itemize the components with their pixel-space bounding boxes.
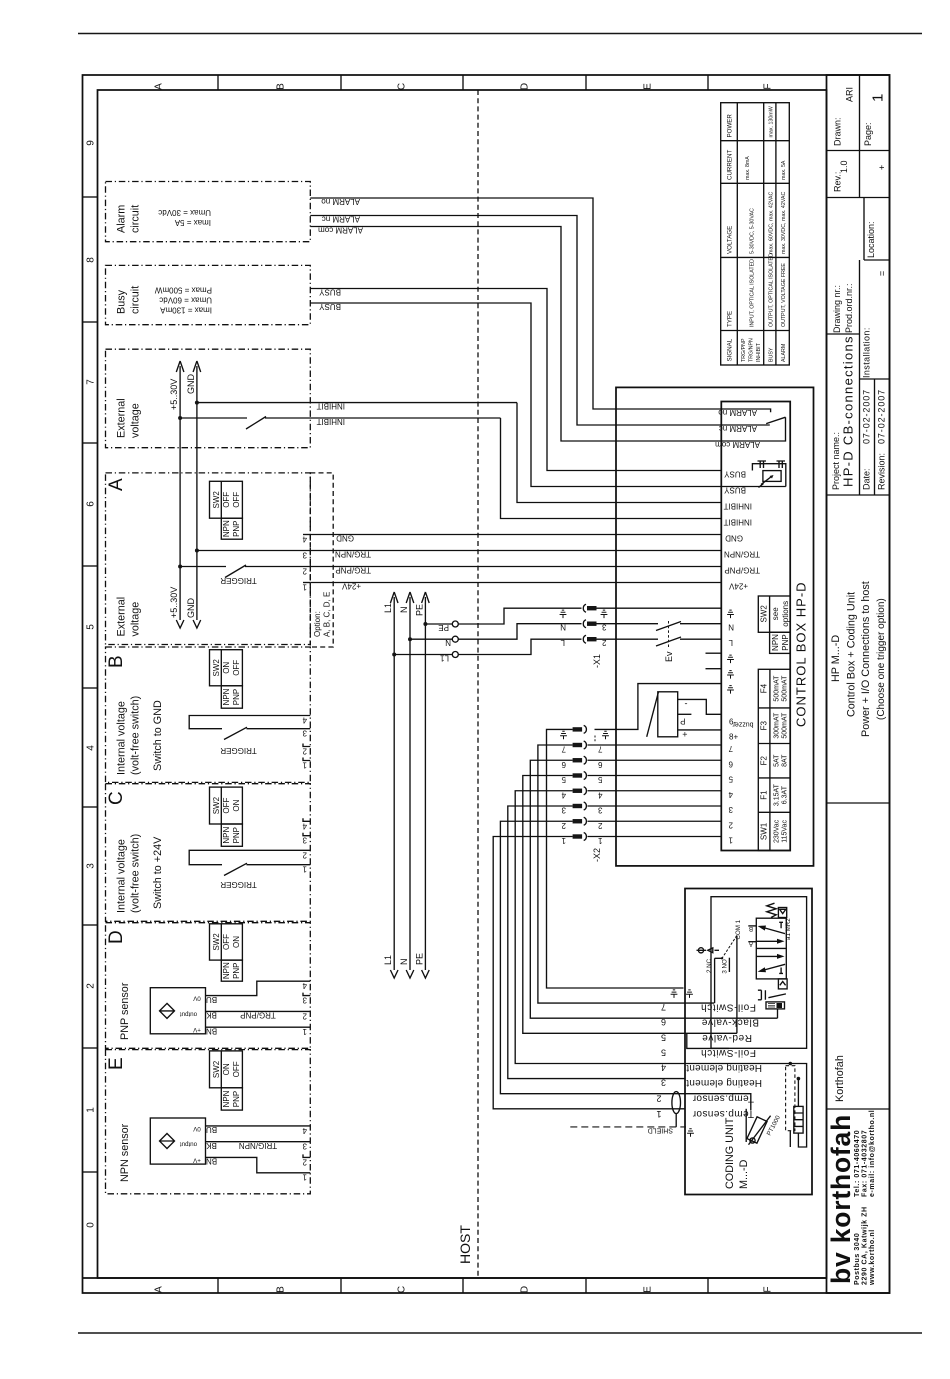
junction dot heating 4 — [789, 1062, 793, 1066]
svg-text:0: 0 — [86, 1222, 97, 1228]
svg-text:Alarm: Alarm — [116, 205, 128, 233]
svg-text:SW1: SW1 — [760, 822, 769, 840]
wire BN box D to t1 — [206, 1026, 311, 1028]
svg-text:options: options — [781, 601, 790, 627]
svg-text:NPN: NPN — [222, 962, 231, 979]
svg-text:5: 5 — [86, 624, 97, 630]
wire ALARM nc — [310, 216, 721, 426]
valve body divider — [756, 947, 786, 949]
svg-text:7: 7 — [598, 745, 603, 754]
control box outer outline — [616, 387, 814, 866]
valve arrow 1 — [765, 928, 786, 934]
svg-text:4: 4 — [561, 790, 566, 799]
wire X2-6 left to coding unit — [530, 760, 685, 1018]
wire GND vertical (box3 to box A) — [196, 366, 198, 620]
svg-text:BUSY: BUSY — [724, 486, 746, 495]
box A External voltage — [106, 473, 311, 645]
svg-text:L1: L1 — [383, 955, 393, 965]
svg-text:BUSY: BUSY — [769, 347, 775, 362]
svg-text:F2: F2 — [760, 755, 769, 765]
com riser to foil row — [714, 958, 716, 1003]
stub t1 box B — [303, 758, 310, 761]
valve solenoid box — [778, 908, 786, 918]
wire X2-7 row — [588, 744, 722, 746]
wire X2-3 row — [588, 805, 722, 807]
bottom margin line — [78, 1332, 922, 1334]
svg-text:INHIBIT: INHIBIT — [723, 502, 752, 511]
svg-text:7: 7 — [728, 744, 733, 753]
svg-text:Location:: Location: — [866, 221, 876, 258]
wire box A t4 GND stub — [303, 534, 310, 536]
svg-text:8+: 8+ — [729, 733, 738, 742]
buzzer box — [658, 692, 678, 737]
svg-text:PNP: PNP — [781, 634, 790, 650]
wire X1 N to box with main switch pole — [597, 623, 722, 625]
svg-text:External: External — [116, 597, 128, 637]
PT1000 body — [747, 1117, 767, 1143]
svg-text:max. 30VDC, max. 42VAC: max. 30VDC, max. 42VAC — [781, 192, 787, 254]
svg-text:Imax = 5A: Imax = 5A — [174, 218, 211, 227]
svg-text:TRIGGER: TRIGGER — [220, 880, 257, 889]
box Busy circuit — [106, 265, 311, 324]
junction dot +5..30V to t2 — [178, 565, 182, 569]
wire BUSY 1 — [310, 289, 721, 471]
svg-text:N: N — [445, 638, 451, 647]
signal table row ALARM — [781, 160, 787, 362]
svg-text:=: = — [877, 271, 887, 276]
svg-text:2: 2 — [598, 821, 603, 830]
svg-text:3: 3 — [302, 836, 307, 845]
bottom ladder strip — [83, 1277, 827, 1279]
wire INHIBIT1 (box3 to control box) — [197, 402, 517, 404]
wire buzzer plus to box — [678, 729, 722, 731]
svg-text:1.0: 1.0 — [839, 160, 849, 173]
svg-text:6: 6 — [661, 1017, 666, 1027]
wire PE vertical — [424, 597, 426, 970]
wire X2-6 row — [588, 759, 722, 761]
red valve riser — [736, 936, 738, 1034]
switch gang dashed link — [668, 621, 670, 648]
valve solenoid triangle — [780, 909, 786, 913]
svg-text:(volt-free switch): (volt-free switch) — [130, 834, 142, 913]
top ladder letters A..F — [154, 83, 774, 90]
com pivot link — [715, 957, 722, 959]
svg-text:+: + — [877, 165, 887, 170]
option dashed box — [310, 473, 333, 647]
svg-text:INHIBIT: INHIBIT — [723, 518, 752, 527]
X2 strip dashed mark — [594, 736, 596, 742]
svg-text:1: 1 — [302, 761, 307, 770]
wire X2-2 row — [588, 820, 722, 822]
stub ground 1 — [706, 652, 722, 654]
com switch dash — [715, 949, 720, 951]
svg-text:2: 2 — [561, 821, 566, 830]
svg-text:Busy: Busy — [116, 289, 128, 314]
stub t3 box D — [303, 993, 310, 996]
svg-text:(volt-free switch): (volt-free switch) — [130, 696, 142, 775]
valve port A stub — [748, 941, 756, 943]
svg-text:A, B, C, D, E: A, B, C, D, E — [323, 592, 332, 637]
junction dot GND/INHIBIT1 — [195, 401, 199, 405]
switch blade INHIBIT2 — [246, 417, 266, 430]
svg-text:PE: PE — [414, 953, 424, 965]
X2 terminal 7 — [573, 743, 583, 747]
X1 left labels PE N L — [560, 610, 567, 647]
title block outline — [827, 75, 890, 1293]
wire X2 PE to box ground row — [595, 684, 722, 730]
svg-text:BUSY: BUSY — [724, 470, 746, 479]
svg-text:GND: GND — [336, 534, 354, 543]
svg-text:SW2: SW2 — [212, 796, 221, 814]
busy optocoupler output — [752, 461, 785, 487]
valve arrow 4 — [765, 964, 786, 970]
switch blade box C — [224, 863, 247, 875]
wire X1 L to box with main switch pole — [597, 638, 722, 640]
bottom ladder dividers — [218, 1278, 708, 1293]
outer drawing frame — [83, 75, 890, 1293]
box External voltage (top) — [106, 349, 311, 448]
svg-text:Pmax = 500mW: Pmax = 500mW — [154, 286, 212, 295]
trigger switch blade box A — [225, 565, 246, 578]
terminal numbers box A — [302, 535, 307, 592]
svg-text:5AT: 5AT — [774, 754, 781, 767]
svg-text:F4: F4 — [760, 683, 769, 693]
stub t4 box C — [303, 818, 310, 821]
svg-text:6: 6 — [598, 760, 603, 769]
wire N vertical — [409, 597, 411, 970]
wire INHIBIT 2 (continuation to control box) — [501, 418, 722, 519]
signal table row TRG — [741, 156, 762, 362]
svg-text:3: 3 — [302, 551, 307, 560]
svg-text:TRG/NPN: TRG/NPN — [749, 338, 755, 362]
X2 terminal 1 — [573, 834, 583, 838]
svg-text:max. 60VDC, max. 42VAC: max. 60VDC, max. 42VAC — [769, 192, 775, 254]
valve spring — [767, 903, 776, 917]
terminal numbers box D — [302, 981, 307, 1036]
HOST separator dashed line — [477, 90, 479, 1278]
valve exhaust muffler — [758, 990, 766, 1000]
svg-text:ALARM: ALARM — [781, 344, 787, 362]
svg-text:A: A — [106, 478, 127, 491]
svg-text:SW2: SW2 — [760, 605, 769, 623]
svg-text:E: E — [643, 83, 654, 90]
NO contact bar — [728, 958, 730, 972]
svg-text:7: 7 — [561, 745, 566, 754]
wire buzzer minus to box — [678, 699, 722, 714]
svg-text:3: 3 — [561, 806, 566, 815]
svg-text:2 NC: 2 NC — [706, 958, 713, 973]
stub t3 box C — [303, 833, 310, 836]
svg-text:OFF: OFF — [222, 797, 231, 813]
svg-text:4: 4 — [302, 535, 307, 544]
svg-text:TRIG/NPN: TRIG/NPN — [239, 1141, 277, 1150]
stub t2 box E — [303, 1154, 310, 1157]
svg-text:5: 5 — [598, 775, 603, 784]
svg-text:500mAT: 500mAT — [774, 675, 781, 702]
wire +5..30V vertical (box3 to box A) — [179, 366, 181, 620]
SHIELD dashed wire — [570, 1126, 686, 1128]
svg-text:D: D — [520, 1286, 531, 1293]
svg-text:115Vac: 115Vac — [782, 820, 789, 843]
svg-text:NPN: NPN — [222, 688, 231, 705]
svg-text:VOLTAGE: VOLTAGE — [727, 226, 734, 254]
wire X2-5 row — [588, 775, 722, 777]
svg-text:Postbus 3040: Postbus 3040 — [854, 1233, 861, 1285]
switch blade L pole — [656, 637, 681, 646]
svg-text:Drawn:: Drawn: — [833, 117, 843, 146]
signal table header column — [727, 114, 734, 362]
svg-text:3: 3 — [661, 1078, 666, 1088]
svg-text:ALARM com: ALARM com — [318, 226, 363, 235]
buzzer stub mark — [678, 713, 692, 715]
svg-text:TRG/NPN: TRG/NPN — [724, 550, 760, 559]
svg-text:4: 4 — [728, 790, 733, 799]
svg-text:F1: F1 — [760, 790, 769, 800]
wire PE feed to X1 ground — [425, 608, 581, 624]
svg-text:Control Box + Coding Unit: Control Box + Coding Unit — [845, 592, 857, 717]
chevron end GND — [193, 620, 201, 628]
svg-text:1: 1 — [656, 1109, 661, 1119]
svg-text:PNP: PNP — [232, 962, 241, 978]
svg-text:Rev.:: Rev.: — [833, 172, 843, 192]
svg-text:POWER: POWER — [727, 114, 734, 138]
wire temp sensor 1 riser — [745, 1109, 747, 1142]
svg-text:M...-D: M...-D — [738, 1159, 750, 1189]
svg-text:PNP: PNP — [232, 827, 241, 843]
svg-text:TRIGGER: TRIGGER — [220, 746, 257, 755]
svg-text:NPN sensor: NPN sensor — [119, 1123, 131, 1182]
wire BN box E to t1 — [206, 1157, 311, 1172]
svg-text:INPUT, OPTICAL ISOLATED: INPUT, OPTICAL ISOLATED — [750, 259, 756, 327]
svg-text:3: 3 — [598, 806, 603, 815]
svg-text:OFF: OFF — [232, 492, 241, 508]
svg-text:TRG/PNP: TRG/PNP — [240, 1011, 276, 1020]
svg-text:HP M...-D: HP M...-D — [830, 635, 842, 682]
svg-text:5: 5 — [728, 775, 733, 784]
junction dot heating 3 — [797, 1077, 801, 1081]
svg-text:max. 5A: max. 5A — [781, 160, 787, 180]
left ladder numbers 9..0 — [86, 140, 97, 1228]
wire X2-4 left to coding unit — [515, 791, 685, 1064]
svg-text:NPN: NPN — [222, 1090, 231, 1107]
wire BK box E to t3 — [206, 1141, 311, 1143]
wire INHIBIT2 with switch — [180, 417, 247, 419]
svg-text:8: 8 — [86, 257, 97, 263]
svg-text:OFF: OFF — [222, 934, 231, 950]
svg-text:Option:: Option: — [313, 611, 322, 637]
svg-text:Project name.:: Project name.: — [831, 432, 841, 490]
PT1000 strike — [749, 1116, 771, 1145]
svg-text:NPN: NPN — [222, 520, 231, 537]
ground glyph PE row inner — [727, 686, 734, 694]
X2 terminal 4 — [573, 789, 583, 793]
svg-text:Heating element: Heating element — [686, 1077, 762, 1088]
wire GND signal — [310, 534, 721, 536]
svg-text:TRIGGER: TRIGGER — [220, 576, 257, 585]
svg-text:7: 7 — [661, 1002, 666, 1012]
SW2 table box E — [210, 1051, 243, 1110]
svg-text:Red-valve: Red-valve — [702, 1032, 752, 1043]
svg-text:Internal voltage: Internal voltage — [116, 839, 128, 913]
svg-text:2: 2 — [656, 1094, 661, 1104]
svg-text:7: 7 — [86, 379, 97, 385]
svg-text:INHIBIT: INHIBIT — [756, 342, 762, 362]
svg-text:6.3AT: 6.3AT — [782, 785, 789, 804]
box B Internal voltage — [106, 647, 311, 782]
arrow up L1 — [390, 592, 398, 603]
box Alarm circuit — [106, 182, 311, 242]
svg-text:3.15AT: 3.15AT — [774, 783, 781, 806]
svg-text:A: A — [154, 1286, 165, 1293]
svg-text:Korthofah: Korthofah — [834, 1055, 846, 1102]
switch blade N pole — [656, 622, 681, 631]
svg-text:OFF: OFF — [222, 492, 231, 508]
wire X2-4 row — [588, 790, 722, 792]
bottom ladder letters A..F — [154, 1286, 774, 1293]
svg-text:L: L — [560, 638, 565, 647]
sensor box E — [150, 1118, 205, 1164]
svg-text:9: 9 — [86, 140, 97, 146]
wire X2-3 left to coding unit — [508, 806, 685, 1079]
svg-text:GND: GND — [186, 598, 196, 619]
X2 terminal PE — [573, 727, 583, 731]
svg-text:GND: GND — [186, 374, 196, 395]
svg-text:1: 1 — [302, 1027, 307, 1036]
title block grid — [827, 75, 890, 1109]
SW2 table box D — [210, 924, 243, 981]
shield drain vertical — [675, 1113, 677, 1127]
svg-text:1: 1 — [302, 1173, 307, 1182]
svg-text:TRG/PNP: TRG/PNP — [335, 566, 371, 575]
valve T mark bottom — [779, 968, 783, 974]
arrow up GND — [193, 361, 201, 372]
svg-text:SW2: SW2 — [212, 933, 221, 951]
box D PNP sensor — [106, 923, 311, 1049]
bridge 5a to 5b — [687, 1033, 729, 1048]
svg-text:0V: 0V — [192, 995, 200, 1002]
inner drawing border — [98, 90, 827, 1278]
svg-text:+V: +V — [192, 1026, 201, 1033]
svg-text:Foil-Switch: Foil-Switch — [701, 1002, 757, 1013]
svg-text:OFF: OFF — [232, 1061, 241, 1077]
svg-text:2: 2 — [86, 983, 97, 989]
arrow up PE — [422, 592, 430, 603]
svg-text:Imax = 130mA: Imax = 130mA — [160, 306, 212, 315]
svg-text:F: F — [763, 1286, 774, 1292]
X1 terminal N — [583, 620, 586, 628]
SW2 table box A — [210, 481, 243, 539]
svg-text:a1 MR2: a1 MR2 — [785, 918, 792, 940]
svg-text:D: D — [106, 930, 127, 944]
box C Internal voltage — [106, 784, 311, 922]
svg-text:HOST: HOST — [457, 1225, 473, 1264]
svg-text:N: N — [399, 607, 409, 614]
wire BK box D to t2 — [206, 1010, 311, 1012]
svg-text:A: A — [154, 83, 165, 90]
junction dot N feed — [408, 637, 412, 641]
svg-text:Installation:: Installation: — [862, 327, 872, 378]
svg-text:N: N — [728, 623, 734, 632]
svg-text:N: N — [560, 623, 566, 632]
wire X1 ground to box — [597, 607, 722, 609]
sensor symbol D — [160, 1003, 175, 1018]
svg-text:07-02-2007: 07-02-2007 — [877, 389, 887, 444]
terminal numbers box B — [302, 716, 307, 770]
wire X2-7 left to coding unit — [538, 745, 714, 1003]
svg-text:+V: +V — [192, 1156, 201, 1163]
SW2 table (control box) — [758, 596, 790, 653]
svg-text:3: 3 — [302, 729, 307, 738]
ground glyph X2 PE wire — [560, 731, 567, 739]
svg-text:voltage: voltage — [130, 403, 142, 438]
svg-text:3 NO: 3 NO — [722, 959, 729, 974]
heating element solid box — [794, 1106, 803, 1133]
svg-text:SW2: SW2 — [212, 491, 221, 509]
svg-text:SW2: SW2 — [212, 659, 221, 677]
svg-text:CODING UNIT: CODING UNIT — [724, 1117, 736, 1189]
wire BU box D to t4 — [206, 981, 311, 995]
svg-text:2290 CA, Katwijk ZH: 2290 CA, Katwijk ZH — [862, 1206, 869, 1285]
wire +24V signal — [310, 582, 721, 584]
coding unit outline — [685, 889, 812, 1195]
wire heating 3 riser — [797, 1079, 799, 1107]
svg-text:PNP sensor: PNP sensor — [119, 982, 131, 1040]
svg-text:300mAT: 300mAT — [774, 712, 781, 739]
wire X2-1 row — [588, 836, 722, 838]
svg-text:2: 2 — [302, 1011, 307, 1020]
wire X2-PE left to coding unit ground — [547, 729, 684, 988]
control box inner unit outline — [721, 402, 790, 851]
wire box A t3 TRG/NPN — [197, 550, 310, 552]
signal table row BUSY — [769, 106, 775, 362]
svg-text:F: F — [763, 83, 774, 89]
svg-text:2: 2 — [728, 820, 733, 829]
svg-text:PNP: PNP — [232, 1091, 241, 1107]
svg-text:ON: ON — [222, 662, 231, 674]
wire row6 extension to riser — [685, 1017, 778, 1019]
svg-text:+24V: +24V — [341, 582, 361, 591]
svg-text:E: E — [643, 1286, 654, 1293]
svg-text:2: 2 — [302, 567, 307, 576]
valve body — [756, 918, 786, 979]
wire black-valve riser — [777, 1009, 779, 1018]
svg-text:Foil-Switch: Foil-Switch — [701, 1047, 757, 1058]
svg-text:+24V: +24V — [728, 582, 748, 591]
ground glyph inner N row — [727, 610, 734, 618]
junction dot GND to t3 — [195, 549, 199, 553]
svg-text:CURRENT: CURRENT — [727, 150, 734, 180]
ground glyph shield — [687, 1129, 694, 1137]
foil switch box — [766, 1002, 785, 1009]
svg-text:5: 5 — [561, 775, 566, 784]
svg-text:500mAT: 500mAT — [782, 675, 789, 702]
svg-text:max. 130mW: max. 130mW — [769, 106, 775, 137]
svg-text:BUSY: BUSY — [319, 288, 341, 297]
terminal numbers box C — [302, 821, 307, 873]
svg-text:-X1: -X1 — [592, 654, 602, 668]
svg-text:CONTROL BOX HP-D: CONTROL BOX HP-D — [794, 581, 809, 727]
X2 terminal 5 — [573, 773, 583, 777]
svg-text:bv korthofah: bv korthofah — [826, 1114, 856, 1284]
ground glyph stub1 — [727, 655, 734, 663]
svg-text:Revision:: Revision: — [877, 453, 887, 490]
valve link diagonal — [768, 994, 786, 998]
chevron end N — [406, 970, 414, 978]
busy arrow symbol — [759, 477, 772, 488]
svg-text:buzzer: buzzer — [732, 721, 754, 728]
box E NPN sensor — [106, 1050, 311, 1194]
wire X2-1 left to coding unit — [493, 837, 685, 1109]
